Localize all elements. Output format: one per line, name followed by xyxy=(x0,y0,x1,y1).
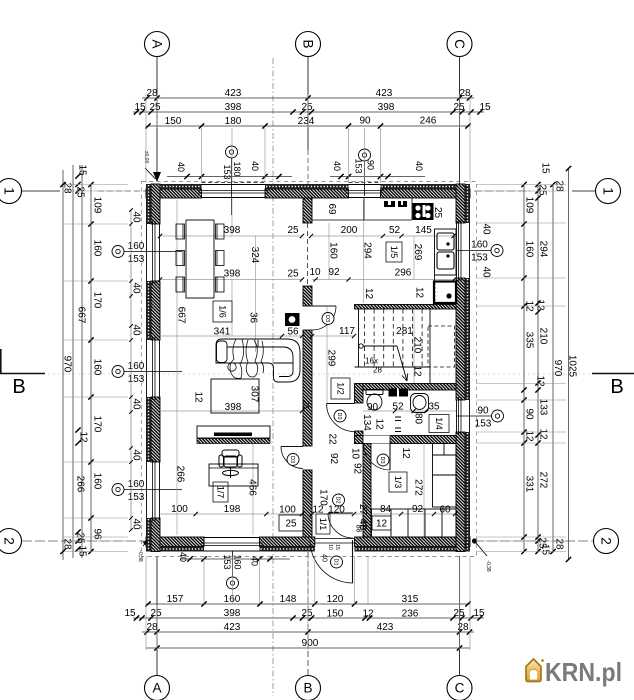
svg-text:28: 28 xyxy=(146,622,158,633)
svg-text:160: 160 xyxy=(328,242,339,259)
svg-text:341: 341 xyxy=(214,327,231,338)
svg-text:150: 150 xyxy=(327,609,344,620)
svg-text:92: 92 xyxy=(412,504,424,515)
svg-text:307: 307 xyxy=(249,386,260,403)
svg-text:12: 12 xyxy=(414,287,425,299)
sink bathroom xyxy=(411,394,429,413)
dim box 12 bedroom xyxy=(372,516,391,530)
svg-text:12: 12 xyxy=(535,375,546,387)
kitchen faucet icons xyxy=(384,201,395,207)
svg-text:153: 153 xyxy=(353,158,363,173)
svg-text:324: 324 xyxy=(249,247,260,264)
room label 1/3 bedroom xyxy=(389,472,407,492)
bottom wall outer band left xyxy=(146,547,204,552)
svg-text:315: 315 xyxy=(402,594,419,605)
svg-text:170: 170 xyxy=(92,292,103,309)
svg-text:12: 12 xyxy=(538,428,549,440)
extension lines left xyxy=(64,185,128,552)
svg-text:1/7: 1/7 xyxy=(215,486,225,499)
window O1 left wall middle xyxy=(147,337,160,400)
left wall hatch segment 1 xyxy=(151,184,160,224)
svg-text:B: B xyxy=(610,376,623,398)
svg-text:266: 266 xyxy=(75,476,86,493)
door marker D3 bedroom xyxy=(377,454,389,466)
svg-text:90: 90 xyxy=(477,406,489,417)
door D1 entrance leaf xyxy=(352,540,354,583)
svg-text:90: 90 xyxy=(365,160,375,170)
svg-text:15: 15 xyxy=(124,608,136,619)
tv unit living xyxy=(197,426,270,444)
svg-text:60: 60 xyxy=(439,505,451,516)
svg-text:160: 160 xyxy=(92,359,103,376)
corridor-bathroom wall upper piece xyxy=(355,384,364,404)
svg-text:28: 28 xyxy=(457,622,469,633)
svg-text:1/6: 1/6 xyxy=(217,305,227,318)
svg-text:28: 28 xyxy=(146,88,158,99)
grid circle B top xyxy=(296,32,321,57)
door marker D3 bathroom xyxy=(334,410,346,422)
left wall outer band 2 xyxy=(146,281,151,340)
kitchen counter top edge xyxy=(312,219,412,221)
section trace horizontal y=374 xyxy=(48,373,590,375)
window marker leader bottom study xyxy=(232,551,234,577)
grid line B top xyxy=(307,57,309,150)
kitchen cooktop xyxy=(413,203,434,220)
bottom dimension row 3 (28|423|423|28) xyxy=(142,631,474,633)
svg-text:25: 25 xyxy=(149,102,161,113)
svg-text:153: 153 xyxy=(128,374,145,385)
svg-text:246: 246 xyxy=(420,116,437,127)
svg-text:25: 25 xyxy=(287,269,299,280)
interior wall hall-study piece xyxy=(303,470,312,537)
svg-text:153: 153 xyxy=(222,164,232,179)
room label 1/6 dining xyxy=(213,301,232,322)
interior dimension ticks xyxy=(158,234,162,238)
door D3 bedroom arc xyxy=(364,444,391,471)
room label 1/7 study xyxy=(213,482,228,502)
svg-text:272: 272 xyxy=(413,479,424,496)
svg-text:198: 198 xyxy=(224,504,241,515)
svg-text:1: 1 xyxy=(600,187,615,195)
fireplace stove dining xyxy=(285,313,300,326)
window marker leader top kitchen xyxy=(364,160,366,196)
svg-text:15: 15 xyxy=(540,162,551,174)
interior construction lines xyxy=(160,198,456,537)
svg-text:109: 109 xyxy=(524,197,535,214)
svg-text:466: 466 xyxy=(247,479,258,496)
section line vertical x=273 xyxy=(272,58,274,696)
room label 1/2 corridor xyxy=(331,378,350,399)
window marker leader left y=489.5 xyxy=(124,489,182,491)
svg-text:1/1: 1/1 xyxy=(318,518,328,531)
grid circle A bottom xyxy=(145,676,170,700)
svg-text:153: 153 xyxy=(128,492,145,503)
svg-text:28: 28 xyxy=(62,182,73,194)
svg-text:90: 90 xyxy=(359,116,371,127)
svg-text:D3: D3 xyxy=(336,412,342,419)
svg-text:423: 423 xyxy=(224,622,241,633)
svg-text:28: 28 xyxy=(554,538,565,550)
door marker D2 xyxy=(333,494,345,506)
door D3 bathroom arc xyxy=(327,404,355,432)
svg-text:120: 120 xyxy=(327,594,344,605)
door D3 bedroom leaf xyxy=(389,444,391,471)
svg-text:12: 12 xyxy=(535,299,546,311)
interior wall dining-kitchen top stub xyxy=(303,198,312,223)
grid circle C bottom xyxy=(447,676,472,700)
top wall hatch right segment xyxy=(381,189,471,198)
svg-text:153: 153 xyxy=(128,254,145,265)
svg-text:12: 12 xyxy=(400,447,411,459)
right dimension column 4 (1025) xyxy=(568,168,570,560)
svg-text:56: 56 xyxy=(287,327,299,338)
svg-text:200: 200 xyxy=(341,225,358,236)
svg-text:1/5: 1/5 xyxy=(389,246,399,259)
svg-text:28: 28 xyxy=(459,88,471,99)
grid line C top xyxy=(459,57,461,184)
svg-text:25: 25 xyxy=(75,186,86,198)
extension lines top xyxy=(146,94,470,183)
svg-text:25: 25 xyxy=(537,184,548,196)
bedroom top wall xyxy=(355,436,457,444)
bottom wall outer band right xyxy=(355,547,471,552)
grid circle 1 right xyxy=(596,179,621,204)
door D1 entrance arc xyxy=(310,540,353,583)
svg-text:100: 100 xyxy=(171,504,188,515)
svg-text:84: 84 xyxy=(380,504,392,515)
svg-text:12: 12 xyxy=(374,418,385,430)
svg-text:150: 150 xyxy=(165,116,182,127)
svg-text:92: 92 xyxy=(328,267,340,278)
svg-text:160: 160 xyxy=(92,240,103,257)
right wall outer band 3 xyxy=(465,432,470,552)
door marker D3 study xyxy=(287,454,299,466)
sofa throw figure xyxy=(228,339,264,378)
interior wall dining-kitchen dashed opening xyxy=(307,223,309,286)
svg-text:D3: D3 xyxy=(379,456,385,463)
svg-text:69: 69 xyxy=(326,203,337,215)
chimney flue box kitchen xyxy=(434,282,456,304)
svg-text:133: 133 xyxy=(538,399,549,416)
svg-text:25: 25 xyxy=(301,102,313,113)
svg-text:27: 27 xyxy=(357,504,368,516)
window marker leader right bathroom xyxy=(456,415,492,417)
svg-text:12: 12 xyxy=(362,609,374,620)
svg-text:40: 40 xyxy=(131,398,142,410)
svg-text:-0,38: -0,38 xyxy=(137,550,143,562)
svg-text:153: 153 xyxy=(475,419,492,430)
svg-text:40: 40 xyxy=(131,324,142,336)
grid circle B bottom xyxy=(296,676,321,700)
grid line 2 right xyxy=(474,540,593,542)
grid line 1 right xyxy=(474,190,530,192)
left dimension column mid (15|25|667|12|266|25|15) xyxy=(72,165,74,558)
dining chairs right xyxy=(216,224,225,239)
svg-text:25: 25 xyxy=(287,225,299,236)
grid line A top xyxy=(156,57,158,176)
svg-text:1: 1 xyxy=(1,187,16,195)
svg-text:180: 180 xyxy=(225,116,242,127)
spot marker bottom-right corner xyxy=(475,541,488,556)
svg-text:272: 272 xyxy=(538,472,549,489)
wardrobe bedroom xyxy=(372,509,457,537)
svg-text:D2: D2 xyxy=(335,496,341,503)
svg-text:294: 294 xyxy=(538,241,549,258)
grid line 2 left xyxy=(22,540,146,542)
svg-text:40: 40 xyxy=(481,223,492,235)
svg-text:A: A xyxy=(152,681,161,696)
grid circle C top xyxy=(447,32,472,57)
right wall outer band 1 xyxy=(465,184,470,223)
bottom dimension row 1 (157|160|148|120|315) xyxy=(146,603,470,605)
top wall hatch middle segment xyxy=(265,189,349,198)
window marker O3 right bathroom xyxy=(492,410,504,422)
grid circle 1 left xyxy=(0,179,22,204)
kitchen sink unit xyxy=(435,229,457,275)
door marker D3 kitchen xyxy=(322,313,334,325)
svg-text:B: B xyxy=(303,681,312,696)
svg-text:153: 153 xyxy=(222,554,232,569)
bedroom door opening jamb lines xyxy=(362,436,364,444)
svg-text:25: 25 xyxy=(150,608,162,619)
door D1 threshold lines xyxy=(315,538,355,540)
svg-text:667: 667 xyxy=(176,307,187,324)
svg-text:10: 10 xyxy=(327,544,333,550)
svg-text:970: 970 xyxy=(62,356,73,373)
room label 1/5 kitchen xyxy=(386,242,402,262)
grid line A bottom xyxy=(156,556,158,675)
right wall hatch segment 3 xyxy=(456,432,465,552)
svg-text:25: 25 xyxy=(75,532,86,544)
svg-text:52: 52 xyxy=(392,402,404,413)
bed bedroom xyxy=(433,444,457,508)
hall-bedroom wall xyxy=(363,444,371,538)
extension lines bottom xyxy=(146,556,470,650)
window marker O3 top kitchen xyxy=(359,149,371,161)
office chair study xyxy=(219,450,242,478)
top wall hatch left segment xyxy=(146,189,202,198)
svg-text:970: 970 xyxy=(552,360,563,377)
svg-text:234: 234 xyxy=(298,116,315,127)
door D3 study arc xyxy=(281,447,303,469)
grid line 1 left xyxy=(22,190,60,192)
svg-text:52: 52 xyxy=(389,225,401,236)
svg-text:22: 22 xyxy=(327,433,338,445)
svg-text:160: 160 xyxy=(92,473,103,490)
svg-text:170: 170 xyxy=(92,416,103,433)
svg-text:40: 40 xyxy=(321,554,328,562)
svg-text:145: 145 xyxy=(415,225,432,236)
svg-text:40: 40 xyxy=(481,266,492,278)
svg-text:160: 160 xyxy=(471,240,488,251)
window marker leader left y=251.5 xyxy=(124,251,182,253)
svg-text:40: 40 xyxy=(332,161,342,171)
bottom dimension row 4 (900) xyxy=(146,647,470,649)
left wall hatch segment 4 xyxy=(151,518,160,552)
svg-text:900: 900 xyxy=(302,638,319,649)
svg-text:266: 266 xyxy=(175,466,186,483)
svg-text:15: 15 xyxy=(77,164,88,176)
svg-text:40: 40 xyxy=(250,161,260,171)
door D3 bathroom leaf xyxy=(327,403,355,405)
svg-text:D1: D1 xyxy=(333,558,339,565)
svg-text:40: 40 xyxy=(131,211,142,223)
svg-text:423: 423 xyxy=(377,622,394,633)
bottom wall outer band middle xyxy=(260,547,315,552)
svg-text:15: 15 xyxy=(334,544,340,550)
svg-text:1025: 1025 xyxy=(567,355,578,378)
svg-text:40: 40 xyxy=(178,552,188,562)
svg-text:294: 294 xyxy=(362,242,373,259)
svg-text:398: 398 xyxy=(224,269,241,280)
svg-text:148: 148 xyxy=(280,594,297,605)
interior wall dining-kitchen mid piece xyxy=(303,286,312,306)
svg-text:134: 134 xyxy=(361,414,372,431)
svg-text:KRN.pl: KRN.pl xyxy=(545,657,622,687)
svg-text:2: 2 xyxy=(598,537,613,545)
grid circle A top xyxy=(145,32,170,57)
dim box 25 study xyxy=(279,515,303,531)
room label 1/4 bathroom xyxy=(429,415,449,433)
svg-text:299: 299 xyxy=(326,350,337,367)
window O1 left wall upper xyxy=(147,221,160,284)
svg-text:398: 398 xyxy=(225,402,242,413)
top wall outer band left xyxy=(146,184,202,189)
section marker B right xyxy=(592,373,634,375)
svg-text:88: 88 xyxy=(355,525,362,533)
svg-text:180: 180 xyxy=(232,161,242,176)
svg-text:398: 398 xyxy=(378,102,395,113)
door D3 kitchen leaf xyxy=(312,305,336,307)
svg-text:40: 40 xyxy=(249,556,259,566)
svg-text:25: 25 xyxy=(432,207,443,219)
window O3 right wall bathroom xyxy=(457,397,470,435)
top dimension row 3 (150|180|234|90|246) xyxy=(146,125,470,127)
svg-text:100: 100 xyxy=(279,505,296,516)
bathroom top wall xyxy=(363,384,456,391)
svg-text:296: 296 xyxy=(395,268,412,279)
KRN.pl logo house icon xyxy=(526,659,544,682)
svg-text:D3: D3 xyxy=(289,456,295,463)
svg-text:15: 15 xyxy=(479,102,491,113)
window marker O1 left y=251.5 xyxy=(112,246,124,258)
svg-text:10: 10 xyxy=(350,448,361,460)
svg-text:92: 92 xyxy=(328,453,339,465)
top wall outer band middle xyxy=(265,184,349,189)
svg-text:210: 210 xyxy=(412,337,423,354)
door D2 hall arc xyxy=(328,513,353,538)
stairs treads dashed xyxy=(365,309,423,367)
bottom wall hatch left segment xyxy=(146,537,204,547)
spot marker top-left corner xyxy=(145,168,156,179)
grid line B bottom xyxy=(307,552,309,675)
svg-text:398: 398 xyxy=(224,608,241,619)
dining chairs left xyxy=(176,224,185,239)
stairs flight boundary xyxy=(358,309,360,367)
section marker B left xyxy=(0,373,45,375)
window O2 top wall dining xyxy=(199,183,269,198)
svg-text:C: C xyxy=(452,39,467,49)
left wall micro dims xyxy=(130,210,132,530)
svg-text:160: 160 xyxy=(524,241,535,258)
svg-text:40: 40 xyxy=(176,162,186,172)
window marker leader left y=371.5 xyxy=(124,371,182,373)
door D3 kitchen arc xyxy=(312,306,336,330)
svg-text:25: 25 xyxy=(285,519,297,530)
svg-text:281: 281 xyxy=(396,326,413,337)
window marker O1 left y=371.5 xyxy=(112,366,124,378)
right dimension column 2 (28|294|12|210|12|133|12|272|25) xyxy=(537,184,539,552)
grid line C bottom xyxy=(459,556,461,675)
svg-text:35: 35 xyxy=(428,402,440,413)
grid circle 2 left xyxy=(0,529,22,554)
svg-text:236: 236 xyxy=(402,609,419,620)
svg-text:D3: D3 xyxy=(324,315,330,322)
kitchen lower cabinet line xyxy=(435,274,457,276)
svg-text:2: 2 xyxy=(1,537,16,545)
grid circle 2 right xyxy=(594,529,619,554)
svg-text:10: 10 xyxy=(309,267,321,278)
svg-text:160: 160 xyxy=(128,361,145,372)
svg-text:269: 269 xyxy=(412,244,423,261)
left wall outer band 3 xyxy=(146,397,151,462)
bottom wall hatch right segment xyxy=(355,537,471,547)
interior wall dining-hall piece xyxy=(303,330,312,446)
top wall outer band right xyxy=(381,184,471,189)
svg-text:153: 153 xyxy=(471,253,488,264)
svg-text:335: 335 xyxy=(524,332,535,349)
svg-text:109: 109 xyxy=(92,197,103,214)
svg-text:B: B xyxy=(300,39,315,48)
right wall hatch segment 2 xyxy=(456,278,465,400)
window micro-dim bottom study xyxy=(180,558,290,560)
svg-text:-0,38: -0,38 xyxy=(485,560,491,572)
stairs top thin wall xyxy=(355,305,457,310)
window marker leader top dining xyxy=(231,157,233,215)
svg-text:80: 80 xyxy=(413,413,424,425)
svg-text:160: 160 xyxy=(232,554,242,569)
svg-text:12: 12 xyxy=(363,288,374,300)
svg-text:15: 15 xyxy=(473,608,485,619)
extension lines right xyxy=(476,185,566,552)
toilet bathroom xyxy=(366,390,383,411)
door D2 hall leaf xyxy=(328,512,353,514)
svg-text:36: 36 xyxy=(248,312,259,324)
window micro-dim top kitchen xyxy=(330,176,425,178)
svg-text:398: 398 xyxy=(225,102,242,113)
bottom wall hatch middle segment xyxy=(260,537,315,547)
window marker O2 top dining xyxy=(226,146,238,158)
stairs walk line xyxy=(359,344,408,381)
svg-text:12: 12 xyxy=(376,519,388,530)
svg-text:423: 423 xyxy=(376,88,393,99)
svg-text:1/4: 1/4 xyxy=(434,417,444,430)
svg-text:423: 423 xyxy=(225,88,242,99)
svg-text:16x: 16x xyxy=(365,356,378,365)
svg-text:398: 398 xyxy=(224,225,241,236)
svg-text:92: 92 xyxy=(352,463,363,475)
svg-text:40: 40 xyxy=(131,518,142,530)
svg-text:C: C xyxy=(455,681,465,696)
svg-text:40: 40 xyxy=(131,449,142,461)
window marker O1 right kitchen xyxy=(491,245,503,257)
sofa corner couch xyxy=(216,339,300,382)
svg-text:157: 157 xyxy=(167,594,184,605)
svg-text:210: 210 xyxy=(538,328,549,345)
svg-text:28: 28 xyxy=(62,538,73,550)
left dimension column inner (109|160|170|160|170|160|96) xyxy=(90,184,92,552)
top dimension row 1 (28|423|423|28) xyxy=(142,97,474,99)
